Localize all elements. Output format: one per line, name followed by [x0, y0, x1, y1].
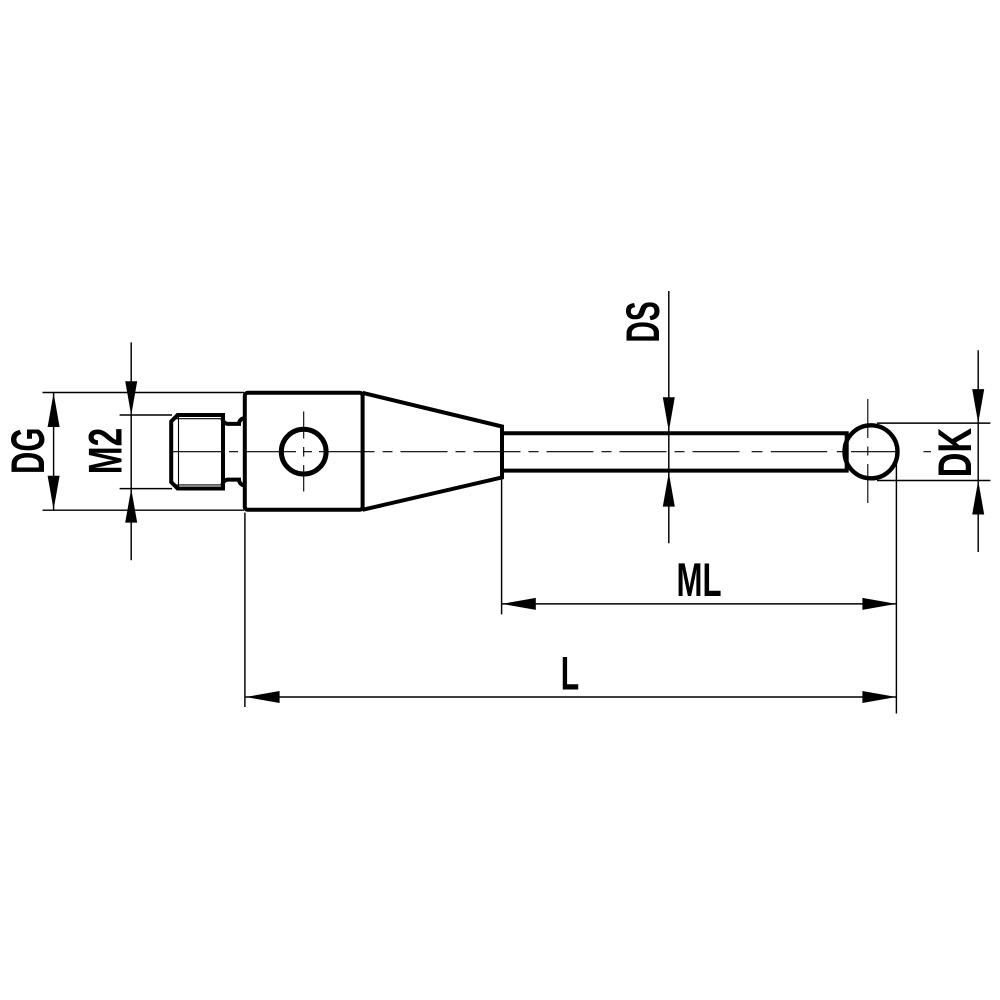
- DK dimension line: [977, 350, 979, 552]
- ML/L right extension line: [895, 462, 897, 714]
- M2 arrow down (above): [125, 381, 137, 415]
- DS arrow up (below stem): [663, 473, 675, 507]
- M2 dimension line: [130, 342, 132, 560]
- L arrow left: [246, 691, 280, 703]
- DG arrow down: [48, 476, 60, 510]
- ML dimension line: [502, 603, 897, 605]
- thread chamfer line: [178, 415, 180, 489]
- centerline main axis: [171, 451, 931, 453]
- cone taper: [363, 393, 503, 510]
- stem shaft: [502, 433, 847, 470]
- body block: [245, 393, 363, 510]
- DG dimension line: [53, 393, 55, 511]
- ball center mark vertical: [867, 399, 869, 503]
- ML arrow right: [862, 598, 896, 610]
- neck between stud and body: [222, 418, 244, 486]
- DK arrow up (below): [972, 481, 984, 515]
- DK arrow down (above): [972, 389, 984, 423]
- ML arrow left: [502, 598, 536, 610]
- threaded stud M2 outline: [171, 415, 223, 489]
- L left extension line: [244, 513, 246, 707]
- ML left extension line: [501, 479, 503, 614]
- DG extension line top: [43, 392, 245, 394]
- L arrow right: [862, 691, 896, 703]
- DK extension line bottom: [877, 480, 990, 482]
- DS dimension line: [668, 291, 670, 543]
- M2 extension line bottom: [120, 488, 172, 490]
- DG arrow up: [48, 393, 60, 427]
- thread minor diameter line top: [173, 418, 222, 420]
- DK extension line top: [877, 422, 990, 424]
- svg-text:M2: M2: [80, 428, 133, 475]
- M2 extension line top: [120, 414, 172, 416]
- hole circle: [281, 429, 326, 474]
- DS arrow down (above stem): [663, 397, 675, 431]
- svg-text:L: L: [561, 648, 579, 701]
- ball tip: [845, 425, 898, 478]
- M2 arrow up (below): [125, 489, 137, 523]
- svg-text:DG: DG: [2, 428, 55, 474]
- svg-text:DS: DS: [617, 301, 670, 342]
- svg-text:DK: DK: [929, 428, 982, 477]
- hole center mark vertical: [303, 412, 305, 492]
- DG extension line bottom: [43, 509, 245, 511]
- thread minor diameter line bottom: [173, 484, 222, 486]
- L dimension line: [246, 696, 897, 698]
- svg-text:ML: ML: [677, 554, 722, 607]
